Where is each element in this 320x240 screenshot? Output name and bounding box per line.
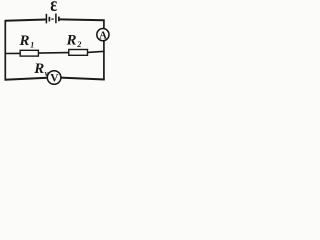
svg-text:v: v [45,69,49,78]
svg-text:2: 2 [76,40,81,49]
battery cell 2 long plate [55,14,57,24]
svg-text:ε: ε [50,0,57,16]
wire left vertical [4,20,6,81]
svg-text:R: R [66,33,77,49]
battery cell 1 long plate [45,14,47,24]
resistor R1 box [20,50,38,56]
wire middle-left segment [5,52,21,54]
svg-text:1: 1 [30,40,34,49]
ammeter A circle [97,28,109,40]
battery cell 1 short plate [48,17,50,22]
svg-text:V: V [50,73,59,85]
battery dots dash [51,18,53,20]
wire bottom-right segment [61,78,105,80]
wire right vertical upper [103,20,105,29]
wire top-right segment [60,18,105,21]
wire middle-center segment [38,52,69,55]
voltmeter V circle [47,71,61,85]
svg-text:R: R [19,33,30,49]
wire middle-right segment [88,51,105,52]
wire bottom-left segment [5,78,48,80]
svg-text:A: A [99,30,107,41]
wire top-left segment [5,20,46,21]
wire right vertical lower [103,41,105,80]
svg-text:R: R [33,61,44,77]
battery cell 2 short plate [58,17,60,22]
resistor R2 box [69,50,88,56]
